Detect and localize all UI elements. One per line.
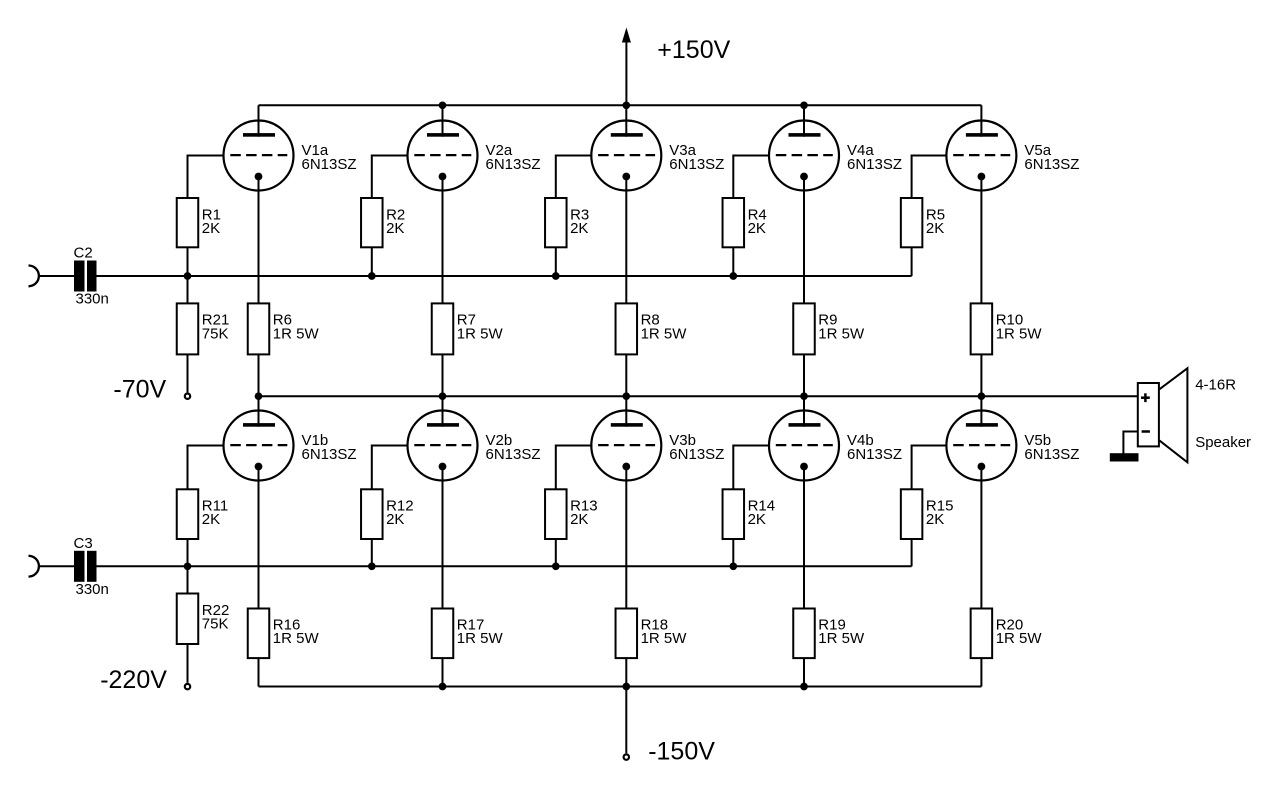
tube V2b (triode) (408, 411, 478, 481)
power +150V supply arrow (622, 28, 631, 106)
junction top grid bus (552, 272, 560, 280)
tube V4a (triode) (769, 121, 839, 191)
wire cathode lead V4b (803, 467, 805, 609)
wire anode lead V1a (258, 105, 260, 136)
resistor R10 (971, 303, 993, 354)
wire cathode lead V2b (442, 467, 444, 609)
junction output rail (622, 392, 630, 400)
wire grid lead V3b (556, 446, 593, 490)
wire R2 to grid bus (371, 247, 373, 276)
terminal -220V (185, 684, 190, 689)
wire cathode lead V1b (258, 467, 260, 609)
junction top grid bus (368, 272, 376, 280)
svg-text:1R 5W: 1R 5W (641, 325, 688, 342)
terminal -70V (185, 394, 190, 399)
svg-text:2K: 2K (386, 511, 404, 528)
resistor R9 (793, 303, 815, 354)
wire grid lead V1a (188, 156, 225, 199)
wire R8 to output rail (625, 354, 627, 396)
junction output rail (978, 392, 986, 400)
wire R1 to grid bus (187, 247, 189, 276)
junction top grid bus (729, 272, 737, 280)
tube V1b (triode) (224, 411, 294, 481)
svg-text:330n: 330n (76, 581, 109, 598)
wire grid lead V3a (556, 156, 593, 199)
junction anode rail (622, 101, 630, 109)
resistor R11 (177, 489, 199, 539)
wire anode lead V2a (442, 105, 444, 136)
wire grid lead V5b (912, 446, 948, 490)
wire anode lead V3b (625, 396, 627, 427)
junction bottom grid bus (552, 562, 560, 570)
wire R16 to cathode rail (258, 658, 260, 686)
svg-text:6N13SZ: 6N13SZ (486, 446, 541, 463)
speaker LS1 driver (1138, 368, 1188, 462)
wire input lead to C3 (40, 565, 74, 567)
svg-text:1R 5W: 1R 5W (273, 630, 320, 647)
junction anode rail (800, 101, 808, 109)
wire cathode lead V4a (803, 177, 805, 304)
svg-text:6N13SZ: 6N13SZ (1024, 156, 1079, 173)
capacitor C3 (74, 551, 97, 582)
resistor R13 (545, 489, 567, 539)
resistor R14 (723, 489, 745, 539)
junction bottom grid bus (184, 562, 192, 570)
wire R14 to grid bus (732, 539, 734, 566)
svg-text:2K: 2K (926, 511, 944, 528)
input terminal (bottom channel) (29, 556, 39, 577)
svg-text:2K: 2K (748, 220, 766, 237)
svg-text:6N13SZ: 6N13SZ (302, 446, 357, 463)
junction output rail (800, 392, 808, 400)
junction bottom grid bus (729, 562, 737, 570)
wire grid bus to R21 (187, 276, 189, 303)
wire cathode lead V2a (442, 177, 444, 304)
wire R12 to grid bus (371, 539, 373, 566)
cathode of V3a (622, 173, 630, 181)
wire speaker - to ground (1123, 432, 1137, 454)
junction output rail (439, 392, 447, 400)
wire output rail to speaker (259, 395, 1138, 397)
wire grid lead V4b (733, 446, 770, 490)
resistor R1 (177, 198, 199, 247)
wire top grid bus (97, 275, 912, 277)
wire R5 to grid bus (911, 247, 913, 276)
wire cathode lead V3a (625, 177, 627, 304)
svg-text:2K: 2K (202, 220, 220, 237)
wire R9 to output rail (803, 354, 805, 396)
wire R3 to grid bus (555, 247, 557, 276)
wire anode lead V4b (803, 396, 805, 427)
cathode of V4b (800, 463, 808, 471)
ground (1110, 453, 1139, 461)
cathode of V3b (622, 463, 630, 471)
wire grid lead V2b (372, 446, 409, 490)
svg-text:6N13SZ: 6N13SZ (847, 156, 902, 173)
resistor R6 (248, 303, 270, 354)
wire cathode lead V3b (625, 467, 627, 609)
junction cathode rail (439, 683, 447, 691)
wire R18 to cathode rail (625, 658, 627, 686)
svg-text:1R 5W: 1R 5W (818, 630, 865, 647)
resistor R8 (616, 303, 638, 354)
junction cathode rail (800, 683, 808, 691)
svg-text:2K: 2K (570, 511, 588, 528)
junction top grid bus (184, 272, 192, 280)
wire R17 to cathode rail (442, 658, 444, 686)
tube V1a (triode) (224, 121, 294, 191)
svg-text:4-16R: 4-16R (1195, 377, 1236, 394)
svg-text:+150V: +150V (657, 36, 730, 64)
resistor R18 (616, 609, 638, 659)
wire grid lead V5a (912, 156, 948, 199)
speaker - terminal mark (1142, 430, 1150, 433)
svg-text:6N13SZ: 6N13SZ (847, 446, 902, 463)
svg-text:6N13SZ: 6N13SZ (669, 156, 724, 173)
svg-text:6N13SZ: 6N13SZ (302, 156, 357, 173)
svg-text:1R 5W: 1R 5W (996, 630, 1043, 647)
svg-text:330n: 330n (76, 291, 109, 308)
speaker + terminal mark (1141, 393, 1150, 402)
wire anode lead V3a (625, 105, 627, 136)
resistor R7 (432, 303, 454, 354)
svg-text:6N13SZ: 6N13SZ (486, 156, 541, 173)
svg-text:1R 5W: 1R 5W (818, 325, 865, 342)
svg-text:-70V: -70V (113, 376, 166, 404)
svg-text:6N13SZ: 6N13SZ (669, 446, 724, 463)
resistor R17 (432, 609, 454, 659)
wire grid lead V1b (188, 446, 225, 490)
terminal -150V (624, 754, 629, 759)
wire anode lead V1b (258, 396, 260, 427)
wire R10 to output rail (980, 354, 982, 396)
wire cathode lead V5b (980, 467, 982, 609)
resistor R21 (177, 303, 199, 354)
wire R21 to -70V terminal (187, 354, 189, 392)
svg-text:1R 5W: 1R 5W (641, 630, 688, 647)
resistor R15 (901, 489, 923, 539)
input terminal (top channel) (29, 266, 39, 287)
svg-text:2K: 2K (386, 220, 404, 237)
capacitor C2 (74, 261, 97, 292)
cathode of V2a (439, 173, 447, 181)
cathode of V5b (978, 463, 986, 471)
svg-text:2K: 2K (570, 220, 588, 237)
wire R7 to output rail (442, 354, 444, 396)
junction cathode rail (622, 683, 630, 691)
resistor R2 (361, 198, 383, 247)
wire grid bus to R22 (187, 566, 189, 593)
resistor R5 (901, 198, 923, 247)
tube V3b (triode) (591, 411, 661, 481)
svg-text:75K: 75K (202, 325, 229, 342)
svg-text:1R 5W: 1R 5W (273, 325, 320, 342)
wire R22 to -220V terminal (187, 644, 189, 683)
wire R13 to grid bus (555, 539, 557, 566)
svg-text:1R 5W: 1R 5W (457, 630, 504, 647)
wire anode lead V2b (442, 396, 444, 427)
cathode of V2b (439, 463, 447, 471)
junction bottom grid bus (368, 562, 376, 570)
svg-text:2K: 2K (748, 511, 766, 528)
cathode of V1a (255, 173, 263, 181)
svg-text:Speaker: Speaker (1195, 434, 1251, 451)
wire anode lead V4a (803, 105, 805, 136)
wire cathode lead V5a (980, 177, 982, 304)
wire anode rail (top row) (259, 104, 982, 106)
tube V3a (triode) (591, 121, 661, 191)
svg-text:C2: C2 (74, 245, 93, 262)
wire cathode rail (bottom row) (259, 686, 982, 688)
svg-text:6N13SZ: 6N13SZ (1024, 446, 1079, 463)
svg-text:2K: 2K (202, 511, 220, 528)
tube V5b (triode) (946, 411, 1016, 481)
wire bottom grid bus (97, 565, 912, 567)
wire cathode lead V1a (258, 177, 260, 304)
cathode of V1b (255, 463, 263, 471)
wire cathode rail to -150V terminal (625, 687, 627, 754)
cathode of V4a (800, 173, 808, 181)
svg-text:1R 5W: 1R 5W (457, 325, 504, 342)
wire R4 to grid bus (732, 247, 734, 276)
svg-text:1R 5W: 1R 5W (996, 325, 1043, 342)
resistor R20 (971, 609, 993, 659)
cathode of V5a (978, 173, 986, 181)
svg-text:-220V: -220V (100, 666, 167, 694)
tube V4b (triode) (769, 411, 839, 481)
tube V2a (triode) (408, 121, 478, 191)
resistor R22 (177, 594, 199, 645)
resistor R19 (793, 609, 815, 659)
wire anode lead V5b (980, 396, 982, 427)
resistor R16 (248, 609, 270, 659)
wire input lead to C2 (40, 275, 74, 277)
wire anode lead V5a (980, 105, 982, 136)
resistor R12 (361, 489, 383, 539)
wire grid lead V4a (733, 156, 770, 199)
svg-text:2K: 2K (926, 220, 944, 237)
wire R20 to cathode rail (980, 658, 982, 686)
wire R15 to grid bus (911, 539, 913, 566)
resistor R4 (723, 198, 745, 247)
tube V5a (triode) (946, 121, 1016, 191)
svg-text:C3: C3 (74, 535, 93, 552)
svg-text:-150V: -150V (648, 737, 715, 765)
svg-text:75K: 75K (202, 615, 229, 632)
resistor R3 (545, 198, 567, 247)
junction anode rail (439, 101, 447, 109)
wire R6 to output rail (258, 354, 260, 396)
junction output rail (255, 392, 263, 400)
wire grid lead V2a (372, 156, 409, 199)
wire R11 to grid bus (187, 539, 189, 566)
wire R19 to cathode rail (803, 658, 805, 686)
